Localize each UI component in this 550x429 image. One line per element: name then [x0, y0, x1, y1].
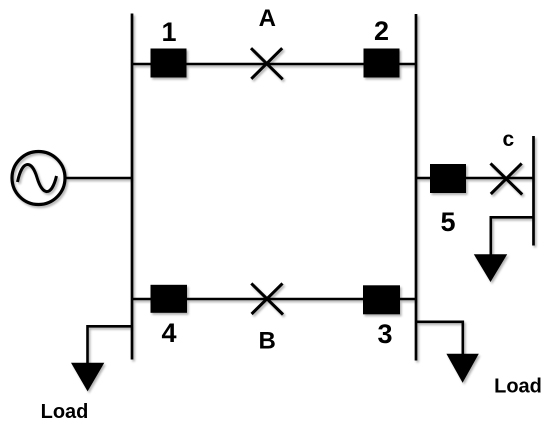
svg-text:5: 5 — [440, 207, 455, 237]
wire right bottom load branch — [416, 322, 463, 355]
switch c — [491, 163, 523, 194]
svg-text:3: 3 — [377, 319, 392, 349]
bus right — [415, 14, 418, 361]
breaker 3 — [363, 285, 400, 314]
svg-text:Load: Load — [494, 376, 542, 398]
svg-text:c: c — [502, 128, 514, 151]
switch A — [251, 48, 283, 79]
wire right middle load branch — [491, 217, 534, 255]
wire bottom feeder — [132, 298, 416, 301]
svg-text:1: 1 — [161, 17, 176, 47]
svg-text:A: A — [259, 5, 276, 32]
load arrow right bottom — [446, 354, 478, 383]
breaker 2 — [364, 49, 400, 78]
svg-text:Load: Load — [41, 401, 89, 423]
bus right stub — [532, 136, 535, 246]
switch B — [251, 283, 283, 314]
svg-text:2: 2 — [374, 16, 389, 46]
wire left load branch — [88, 326, 133, 363]
source G1 — [12, 152, 65, 205]
wire right branch — [416, 177, 534, 180]
load arrow left — [71, 363, 104, 392]
load arrow right middle — [474, 254, 507, 282]
bus left — [131, 14, 134, 360]
svg-text:B: B — [259, 328, 276, 355]
wire top feeder — [132, 63, 416, 66]
wire source to left bus — [66, 177, 133, 180]
breaker 4 — [151, 285, 188, 313]
svg-text:4: 4 — [161, 318, 176, 348]
breaker 5 — [430, 164, 466, 193]
breaker 1 — [151, 49, 187, 78]
